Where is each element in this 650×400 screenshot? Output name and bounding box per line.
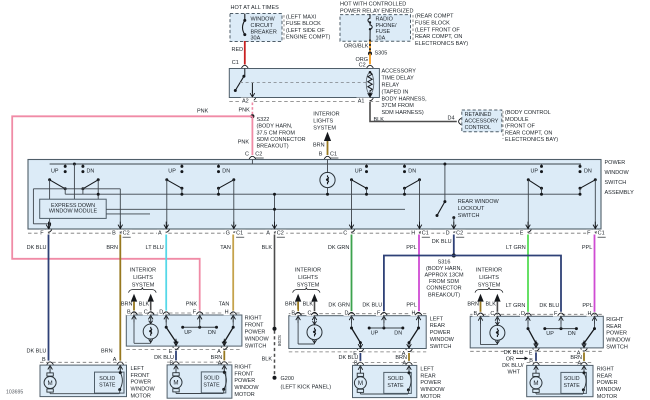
wire PNK relay A2 to S322 xyxy=(251,103,253,117)
svg-text:SYSTEM: SYSTEM xyxy=(132,282,155,288)
svg-text:LIGHTS: LIGHTS xyxy=(479,275,499,281)
svg-text:D: D xyxy=(159,310,163,316)
svg-text:B: B xyxy=(529,358,533,364)
svg-text:30A: 30A xyxy=(251,36,261,42)
svg-text:ORG/BLK: ORG/BLK xyxy=(344,44,369,50)
svg-text:(REAR COMPT: (REAR COMPT xyxy=(415,14,454,20)
svg-text:POWER: POWER xyxy=(420,380,441,386)
svg-text:C: C xyxy=(144,310,148,316)
wire TAN to right front switch H xyxy=(232,235,234,311)
svg-text:G200: G200 xyxy=(281,376,294,382)
svg-text:UP: UP xyxy=(355,169,363,175)
svg-text:E: E xyxy=(529,351,533,357)
svg-text:M: M xyxy=(358,380,363,387)
svg-text:A1: A1 xyxy=(358,99,365,105)
svg-text:TAN: TAN xyxy=(219,301,230,307)
svg-text:REAR: REAR xyxy=(597,373,612,379)
svg-text:ACCESSORY: ACCESSORY xyxy=(382,69,417,75)
wire DK BLU left rear switch E to motor B xyxy=(359,353,361,361)
svg-text:OR: OR xyxy=(506,357,514,363)
svg-text:103695: 103695 xyxy=(6,390,23,396)
svg-text:STATE: STATE xyxy=(564,383,581,389)
svg-text:INTERIOR: INTERIOR xyxy=(476,268,502,274)
svg-text:D: D xyxy=(521,311,525,317)
svg-text:(LEFT MAXI: (LEFT MAXI xyxy=(286,14,317,20)
svg-text:SOLID: SOLID xyxy=(564,376,580,382)
wire LT BLU to right front switch D xyxy=(165,235,167,311)
svg-text:DK BLU/: DK BLU/ xyxy=(502,363,524,369)
wire BLK relay A1 to D4 xyxy=(370,102,457,122)
svg-text:REAR: REAR xyxy=(420,373,435,379)
svg-text:RADIO: RADIO xyxy=(376,17,394,23)
right rear section blades xyxy=(527,178,530,181)
driver switch blades xyxy=(48,178,51,181)
svg-text:SYSTEM: SYSTEM xyxy=(297,282,320,288)
svg-text:B: B xyxy=(291,310,295,316)
svg-text:C: C xyxy=(308,310,312,316)
svg-text:(BODY HARN,: (BODY HARN, xyxy=(426,266,462,272)
fuse block dashed box (left maxi) xyxy=(230,14,282,42)
svg-text:PPL: PPL xyxy=(406,245,416,251)
svg-text:B: B xyxy=(112,230,116,236)
svg-text:BLK: BLK xyxy=(374,117,385,123)
svg-text:MODULE: MODULE xyxy=(505,117,529,123)
svg-text:REAR: REAR xyxy=(606,324,621,330)
svg-text:UP: UP xyxy=(531,169,539,175)
wire BLK to splice xyxy=(274,235,276,329)
rear compt fuse block note xyxy=(412,15,414,42)
svg-text:D: D xyxy=(345,310,349,316)
svg-text:RED: RED xyxy=(232,47,244,53)
svg-text:REAR COMPT, ON: REAR COMPT, ON xyxy=(415,34,462,40)
svg-text:FUSE: FUSE xyxy=(376,29,391,35)
svg-text:E: E xyxy=(169,349,173,355)
body control module note xyxy=(502,111,504,139)
svg-text:A2: A2 xyxy=(242,99,249,105)
svg-text:DN: DN xyxy=(87,168,95,174)
wire PNK S322 to window switch C2 xyxy=(251,116,253,155)
svg-text:FRONT: FRONT xyxy=(245,323,265,329)
wire DK BLU to left front motor B xyxy=(48,235,50,361)
relay pin A1 xyxy=(367,98,374,101)
svg-text:DN: DN xyxy=(208,330,216,336)
svg-text:LIGHTS: LIGHTS xyxy=(298,275,318,281)
svg-text:CONTROL: CONTROL xyxy=(465,125,491,131)
driver output rail xyxy=(33,188,120,190)
svg-text:PPL: PPL xyxy=(406,303,416,309)
svg-text:BLK: BLK xyxy=(262,357,273,363)
svg-text:37CM FROM: 37CM FROM xyxy=(382,103,415,109)
left rear section blades xyxy=(350,178,353,181)
svg-text:BRN: BRN xyxy=(106,245,118,251)
svg-text:LT GRN: LT GRN xyxy=(506,303,526,309)
svg-text:M: M xyxy=(533,380,538,387)
svg-text:S316: S316 xyxy=(438,259,451,265)
svg-text:LOCKOUT: LOCKOUT xyxy=(458,206,485,212)
svg-text:C2: C2 xyxy=(277,230,284,236)
splice S316 xyxy=(452,254,456,258)
passenger switch blades xyxy=(165,178,168,181)
svg-text:(TAPED IN: (TAPED IN xyxy=(382,89,409,95)
svg-text:UP: UP xyxy=(168,169,176,175)
wire BRN right front switch A to motor A xyxy=(223,351,225,361)
svg-text:BLK: BLK xyxy=(303,302,314,308)
relay connector dashes xyxy=(229,101,379,103)
svg-text:SYSTEM: SYSTEM xyxy=(313,126,336,132)
svg-text:D: D xyxy=(446,230,450,236)
svg-text:INTERIOR: INTERIOR xyxy=(313,111,339,117)
svg-text:PHONE/: PHONE/ xyxy=(376,23,398,29)
svg-text:(LEFT FRONT OF: (LEFT FRONT OF xyxy=(415,27,460,33)
svg-text:S322: S322 xyxy=(257,117,270,123)
svg-text:FRONT: FRONT xyxy=(234,371,254,377)
svg-text:BLK: BLK xyxy=(485,302,496,308)
wire RED from breaker xyxy=(244,41,246,64)
express down window module xyxy=(40,199,107,218)
svg-text:S305: S305 xyxy=(375,51,388,57)
rear compt fuse block dashed box xyxy=(340,15,411,42)
wire BRN left rear switch A to motor A xyxy=(408,353,410,361)
wire LT GRN to right rear switch D xyxy=(527,235,529,312)
svg-text:G: G xyxy=(226,230,230,236)
svg-text:STATE: STATE xyxy=(99,383,116,389)
wire ORG/BLK from fuse xyxy=(369,40,371,54)
svg-text:H: H xyxy=(412,310,416,316)
svg-text:UP: UP xyxy=(546,331,554,337)
svg-text:SOLID: SOLID xyxy=(204,376,220,382)
wire BRN right rear switch A to motor A xyxy=(583,352,585,361)
svg-text:BLK: BLK xyxy=(262,245,273,251)
svg-text:RIGHT: RIGHT xyxy=(245,316,263,322)
svg-text:FUSE BLOCK: FUSE BLOCK xyxy=(415,21,450,27)
arrow to interior lights xyxy=(324,132,331,141)
svg-text:LIGHTS: LIGHTS xyxy=(133,275,153,281)
svg-text:CONNECTOR: CONNECTOR xyxy=(426,286,461,292)
svg-text:C2: C2 xyxy=(255,152,262,158)
svg-text:HOT WITH CONTROLLED: HOT WITH CONTROLLED xyxy=(340,1,406,7)
svg-text:PNK: PNK xyxy=(239,107,251,113)
svg-text:RIGHT: RIGHT xyxy=(234,364,252,370)
svg-text:E: E xyxy=(520,230,524,236)
svg-text:LT BLU: LT BLU xyxy=(146,245,164,251)
svg-text:POWER: POWER xyxy=(234,378,255,384)
svg-text:(FRONT OF: (FRONT OF xyxy=(505,124,535,130)
svg-text:LEFT: LEFT xyxy=(131,366,145,372)
svg-text:DK BLU: DK BLU xyxy=(539,303,559,309)
left rear power window switch xyxy=(289,316,426,349)
svg-text:BRN: BRN xyxy=(101,348,113,354)
svg-text:APPROX 13CM: APPROX 13CM xyxy=(424,273,464,279)
svg-text:M: M xyxy=(48,380,53,387)
svg-text:WINDOW: WINDOW xyxy=(597,387,622,393)
svg-text:ENGINE COMPT): ENGINE COMPT) xyxy=(286,35,330,41)
svg-text:PNK: PNK xyxy=(186,301,198,307)
svg-text:WINDOW: WINDOW xyxy=(420,387,445,393)
svg-text:RIGHT: RIGHT xyxy=(606,317,624,323)
svg-text:B: B xyxy=(42,357,46,363)
left front power window motor xyxy=(40,365,127,397)
module output rails xyxy=(106,208,405,210)
svg-text:BREAKER: BREAKER xyxy=(251,29,277,35)
svg-text:UP: UP xyxy=(51,168,59,174)
relay coil xyxy=(366,73,374,94)
ground pin BLK xyxy=(274,194,276,229)
svg-text:BRN: BRN xyxy=(285,302,297,308)
wire ORG to relay xyxy=(369,54,371,65)
svg-text:C1: C1 xyxy=(422,230,429,236)
left rear power window motor xyxy=(353,365,417,397)
svg-text:POWER: POWER xyxy=(605,160,626,166)
svg-text:B: B xyxy=(127,310,131,316)
relay switch contact xyxy=(244,69,246,76)
svg-text:C: C xyxy=(245,152,249,158)
ground G200 xyxy=(273,376,277,380)
svg-text:H: H xyxy=(225,310,229,316)
wire DK BLU right rear switch E to motor B xyxy=(535,352,537,361)
ground rail 1 xyxy=(65,193,581,195)
svg-text:UP: UP xyxy=(184,330,192,336)
svg-text:A: A xyxy=(217,349,221,355)
svg-text:WINDOW: WINDOW xyxy=(251,17,276,23)
svg-text:SWITCH: SWITCH xyxy=(430,344,452,350)
switch assembly bottom connector line xyxy=(28,232,601,234)
power window switch assembly box xyxy=(28,160,601,230)
svg-text:DN: DN xyxy=(408,169,416,175)
svg-text:MOTOR: MOTOR xyxy=(420,394,440,400)
svg-text:BREAKOUT): BREAKOUT) xyxy=(257,144,289,150)
wire PNK S322 long run to right front switch F xyxy=(12,116,252,310)
wire BRN interior lights to switch B C1 xyxy=(327,141,329,155)
svg-text:RETAINED: RETAINED xyxy=(465,112,492,118)
svg-text:DN: DN xyxy=(584,169,592,175)
svg-text:FROM SDM: FROM SDM xyxy=(429,279,459,285)
svg-text:LIGHTS: LIGHTS xyxy=(313,119,333,125)
retained accessory control dashed box xyxy=(462,110,502,132)
svg-text:UP: UP xyxy=(371,331,379,337)
wire DK BLU to splice S316 xyxy=(453,235,455,256)
svg-text:(LEFT SIDE OF: (LEFT SIDE OF xyxy=(286,28,325,34)
left maxi fuse block note xyxy=(283,15,285,40)
svg-text:HOT AT ALL TIMES: HOT AT ALL TIMES xyxy=(231,5,280,11)
svg-text:SOLID: SOLID xyxy=(388,376,404,382)
svg-text:DK BLU: DK BLU xyxy=(432,239,452,245)
svg-text:PNK: PNK xyxy=(197,108,209,114)
svg-text:(LEFT KICK PANEL): (LEFT KICK PANEL) xyxy=(281,384,332,390)
svg-text:SOLID: SOLID xyxy=(99,376,115,382)
svg-text:INTERIOR: INTERIOR xyxy=(130,268,156,274)
svg-text:WINDOW MODULE: WINDOW MODULE xyxy=(49,209,98,215)
svg-text:ELECTRONICS BAY): ELECTRONICS BAY) xyxy=(415,41,468,47)
svg-text:MOTOR: MOTOR xyxy=(234,392,254,398)
svg-text:37.5 CM FROM: 37.5 CM FROM xyxy=(257,130,296,136)
svg-text:DK BLU: DK BLU xyxy=(362,303,382,309)
svg-text:FUSE BLOCK: FUSE BLOCK xyxy=(286,21,321,27)
svg-text:PPL: PPL xyxy=(582,245,592,251)
svg-text:C2: C2 xyxy=(359,63,366,69)
svg-text:LEFT: LEFT xyxy=(420,366,434,372)
wire DK BLU right front switch E to motor B xyxy=(175,351,177,361)
svg-text:MOTOR: MOTOR xyxy=(131,394,151,400)
right rear power window motor xyxy=(527,365,593,396)
wire BLK dashed to G200 xyxy=(274,331,276,376)
svg-text:(BODY HARN,: (BODY HARN, xyxy=(257,124,293,130)
svg-text:WINDOW: WINDOW xyxy=(606,338,631,344)
svg-text:DK GRN: DK GRN xyxy=(328,245,349,251)
rear window lockout switch xyxy=(443,163,446,166)
svg-text:LEFT: LEFT xyxy=(430,316,444,322)
svg-text:SWITCH: SWITCH xyxy=(605,180,627,186)
svg-text:STATE: STATE xyxy=(203,382,220,388)
svg-text:DK BLU: DK BLU xyxy=(504,350,524,356)
fuse RADIO PHONE 10A symbol xyxy=(368,14,372,40)
svg-text:C1: C1 xyxy=(236,230,243,236)
svg-text:B: B xyxy=(319,152,323,158)
splice on BLK ground wire xyxy=(273,327,277,331)
svg-text:ACCESSORY: ACCESSORY xyxy=(465,118,499,124)
svg-text:SWITCH: SWITCH xyxy=(606,345,628,351)
svg-text:A: A xyxy=(113,357,117,363)
svg-text:POWER RELAY ENERGIZED: POWER RELAY ENERGIZED xyxy=(340,8,413,14)
svg-text:POWER: POWER xyxy=(131,380,152,386)
wire PPL to left rear switch H xyxy=(418,235,420,312)
svg-text:DN: DN xyxy=(222,169,230,175)
svg-text:CIRCUIT: CIRCUIT xyxy=(251,23,274,29)
svg-text:POWER: POWER xyxy=(430,330,451,336)
svg-text:S208: S208 xyxy=(276,335,282,347)
svg-text:DN: DN xyxy=(568,331,576,337)
svg-text:H: H xyxy=(588,311,592,317)
svg-text:(BODY CONTROL: (BODY CONTROL xyxy=(505,110,551,116)
svg-text:WINDOW: WINDOW xyxy=(234,385,259,391)
svg-text:D4: D4 xyxy=(448,116,455,122)
svg-text:WINDOW: WINDOW xyxy=(131,387,156,393)
svg-text:TIME DELAY: TIME DELAY xyxy=(382,76,415,82)
svg-text:WHT: WHT xyxy=(507,370,520,376)
svg-text:H: H xyxy=(411,230,415,236)
svg-text:A: A xyxy=(158,230,162,236)
svg-text:INTERIOR: INTERIOR xyxy=(295,268,321,274)
svg-text:DK GRN: DK GRN xyxy=(328,303,349,309)
svg-text:C1: C1 xyxy=(330,152,337,158)
svg-text:A: A xyxy=(266,230,270,236)
svg-text:RELAY: RELAY xyxy=(382,83,400,89)
splice S322 xyxy=(250,114,254,118)
svg-text:FRONT: FRONT xyxy=(131,373,151,379)
svg-text:PNK: PNK xyxy=(238,140,250,146)
illumination lamp switch assembly xyxy=(327,160,329,174)
svg-text:BRN: BRN xyxy=(121,302,133,308)
svg-text:RIGHT: RIGHT xyxy=(597,366,615,372)
svg-text:C2: C2 xyxy=(456,230,463,236)
svg-text:10A: 10A xyxy=(376,35,386,41)
svg-text:LT GRN: LT GRN xyxy=(506,245,526,251)
svg-text:SWITCH: SWITCH xyxy=(245,343,267,349)
svg-text:BRN: BRN xyxy=(467,302,479,308)
svg-text:C: C xyxy=(343,230,347,236)
svg-text:DN: DN xyxy=(394,331,402,337)
svg-text:ELECTRONICS BAY): ELECTRONICS BAY) xyxy=(505,137,558,143)
wire DK BLU S316 distribution xyxy=(384,256,561,312)
svg-text:M: M xyxy=(173,380,178,387)
wire DK GRN to left rear switch D xyxy=(351,235,353,312)
svg-text:POWER: POWER xyxy=(597,380,618,386)
svg-text:B: B xyxy=(474,311,478,317)
wire PPL to right rear switch H xyxy=(594,235,596,312)
wire BRN to left front motor A xyxy=(119,235,121,361)
accessory time delay relay box xyxy=(229,69,379,98)
svg-text:BODY HARNESS,: BODY HARNESS, xyxy=(382,96,428,102)
svg-text:C: C xyxy=(490,311,494,317)
svg-text:WINDOW: WINDOW xyxy=(245,336,270,342)
svg-text:REAR: REAR xyxy=(430,323,445,329)
svg-text:WINDOW: WINDOW xyxy=(430,337,455,343)
svg-text:STATE: STATE xyxy=(387,383,404,389)
right rear power window switch xyxy=(470,316,603,348)
circuit breaker CB 30A symbol xyxy=(243,20,245,34)
svg-text:REAR COMPT, ON: REAR COMPT, ON xyxy=(505,130,552,136)
splice S305 xyxy=(368,52,372,56)
right front power window motor xyxy=(167,365,232,398)
relay control dashed link xyxy=(240,82,366,84)
svg-text:BREAKOUT): BREAKOUT) xyxy=(428,292,460,298)
svg-text:POWER: POWER xyxy=(606,331,627,337)
svg-text:DK BLU: DK BLU xyxy=(27,245,47,251)
svg-text:BRN: BRN xyxy=(313,143,325,149)
svg-text:SDM CONNECTOR: SDM CONNECTOR xyxy=(257,137,306,143)
svg-text:SDM HARNESS): SDM HARNESS) xyxy=(382,110,424,116)
svg-text:PPL: PPL xyxy=(582,303,592,309)
bottom connector pins and letters xyxy=(45,230,52,233)
svg-text:C1: C1 xyxy=(598,230,605,236)
svg-text:REAR WINDOW: REAR WINDOW xyxy=(458,199,500,205)
svg-text:DK BLU: DK BLU xyxy=(27,348,47,354)
svg-text:BLK: BLK xyxy=(139,302,150,308)
svg-text:TAN: TAN xyxy=(220,245,231,251)
svg-text:SWITCH: SWITCH xyxy=(458,213,480,219)
internal power bus xyxy=(50,163,581,165)
right front power window switch xyxy=(126,315,242,346)
svg-text:MOTOR: MOTOR xyxy=(597,394,617,400)
svg-text:WINDOW: WINDOW xyxy=(605,170,630,176)
svg-text:POWER: POWER xyxy=(245,330,266,336)
svg-text:ASSEMBLY: ASSEMBLY xyxy=(605,190,635,196)
relay pin A2 xyxy=(251,83,253,93)
svg-text:C1: C1 xyxy=(232,60,239,66)
svg-text:C2: C2 xyxy=(123,230,130,236)
